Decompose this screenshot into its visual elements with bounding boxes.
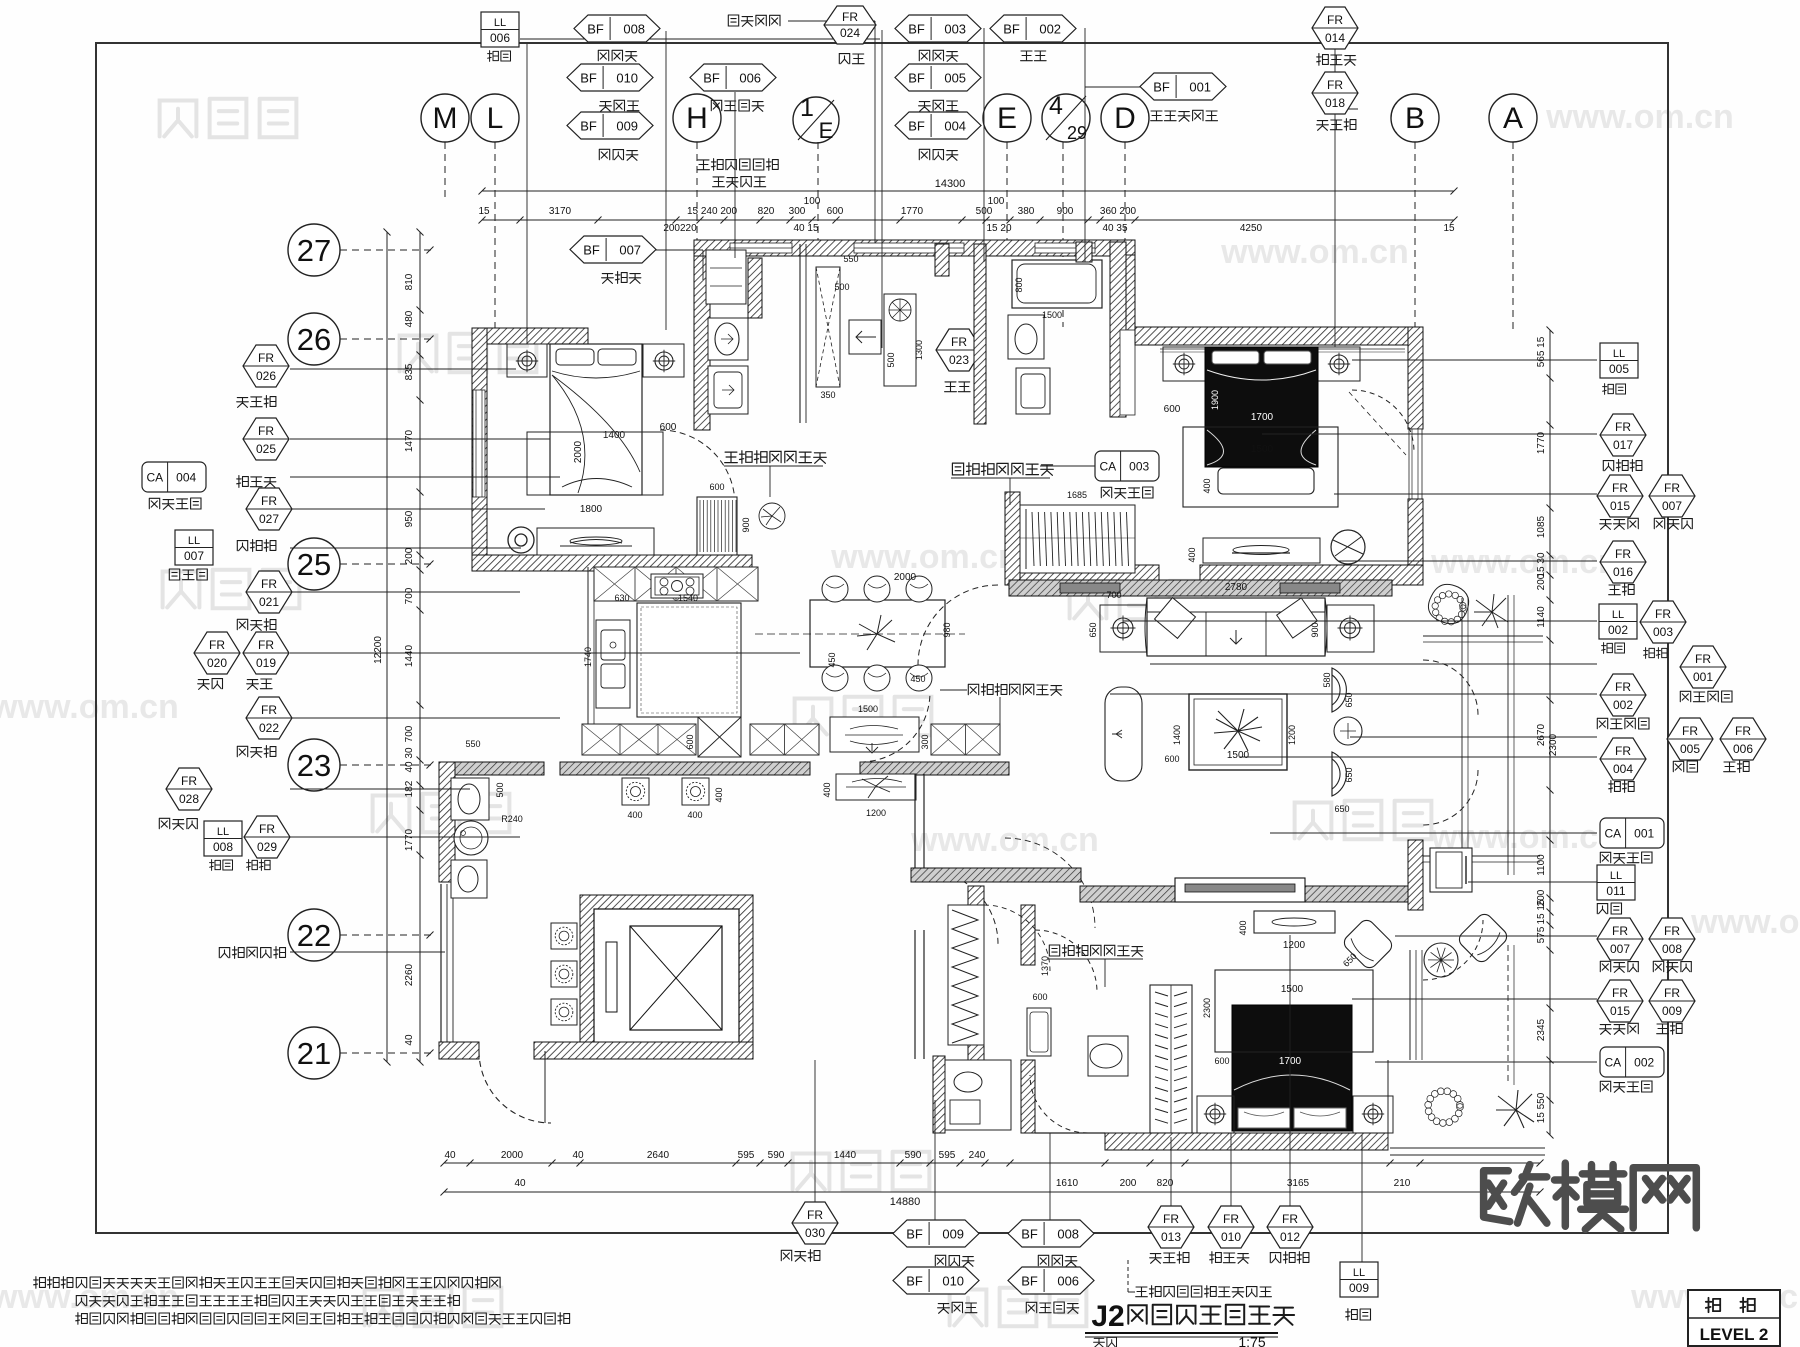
dimension line top overall xyxy=(482,190,1454,192)
svg-text:200: 200 xyxy=(1536,573,1547,590)
tag LL008 xyxy=(204,821,242,856)
svg-text:020: 020 xyxy=(207,656,227,670)
bedroom1 tv cabinet xyxy=(537,528,654,555)
svg-text:003: 003 xyxy=(1653,625,1673,639)
tag FR022 xyxy=(246,697,292,739)
svg-text:1770: 1770 xyxy=(901,206,924,217)
svg-text:FR: FR xyxy=(951,335,967,349)
svg-text:650: 650 xyxy=(1088,622,1098,637)
svg-text:008: 008 xyxy=(623,22,645,37)
svg-text:700: 700 xyxy=(404,587,415,604)
svg-text:BF: BF xyxy=(1021,1274,1038,1289)
label 单人沙发 xyxy=(1597,718,1649,729)
label 台灯r2 xyxy=(1602,643,1625,654)
bath1 vanity xyxy=(708,366,748,414)
hall console band xyxy=(1009,580,1392,596)
svg-text:019: 019 xyxy=(256,656,276,670)
svg-text:BF: BF xyxy=(908,119,925,134)
svg-text:BF: BF xyxy=(906,1227,923,1242)
tag CA002 xyxy=(1600,1047,1664,1077)
svg-text:www.om.cn: www.om.cn xyxy=(0,688,179,726)
svg-text:FR: FR xyxy=(807,1208,823,1222)
label 休闲椅b2 xyxy=(1653,961,1691,972)
svg-text:013: 013 xyxy=(1161,1230,1181,1244)
dining centerline xyxy=(755,633,965,635)
svg-text:200: 200 xyxy=(404,547,415,564)
dimension line right xyxy=(1549,330,1551,1135)
label 台灯l xyxy=(210,860,233,871)
svg-text:835: 835 xyxy=(404,363,415,380)
svg-text:1770: 1770 xyxy=(404,828,415,851)
console hall xyxy=(836,774,916,800)
svg-text:E: E xyxy=(819,118,834,143)
note 书柜做法见详图 xyxy=(725,451,827,464)
tag CA003 xyxy=(1095,451,1159,481)
bedroom2 top wall xyxy=(1135,327,1423,345)
svg-text:480: 480 xyxy=(404,310,415,327)
svg-text:15 20: 15 20 xyxy=(986,223,1011,234)
tag FR015a xyxy=(1597,475,1643,517)
label 圆几r xyxy=(1609,584,1634,596)
tag BF010 xyxy=(567,64,653,91)
pantry island xyxy=(884,294,916,386)
svg-text:FR: FR xyxy=(259,822,275,836)
svg-text:1500: 1500 xyxy=(1227,750,1250,761)
svg-text:595: 595 xyxy=(939,1150,956,1161)
tag CA004 xyxy=(142,462,206,492)
svg-text:FR: FR xyxy=(1612,481,1628,495)
svg-text:900: 900 xyxy=(1057,206,1074,217)
leader lines left tags xyxy=(290,368,516,370)
svg-text:R240: R240 xyxy=(501,814,523,824)
svg-text:600: 600 xyxy=(709,482,724,492)
bath2 stub wall xyxy=(935,244,949,276)
corner chair 2 xyxy=(1456,911,1510,965)
svg-text:010: 010 xyxy=(616,71,638,86)
bath1 toilet xyxy=(708,318,748,360)
svg-text:017: 017 xyxy=(1613,438,1633,452)
svg-text:016: 016 xyxy=(1613,565,1633,579)
label 休闲椅b1 xyxy=(1600,961,1638,972)
svg-text:700: 700 xyxy=(404,725,415,742)
tag FR016 xyxy=(1600,541,1646,583)
svg-text:005: 005 xyxy=(1609,362,1629,376)
svg-text:12200: 12200 xyxy=(373,636,384,664)
svg-text:2000: 2000 xyxy=(501,1150,524,1161)
svg-text:030: 030 xyxy=(805,1226,825,1240)
svg-text:023: 023 xyxy=(949,353,969,367)
svg-text:FR: FR xyxy=(1223,1212,1239,1226)
label 书桌 xyxy=(945,382,971,392)
svg-text:23: 23 xyxy=(297,748,331,783)
svg-text:www.om.cn: www.om.cn xyxy=(1690,903,1800,941)
tag FR009 xyxy=(1649,980,1695,1022)
tag LL011 xyxy=(1597,865,1635,900)
label 原建筑栏杆 xyxy=(219,947,285,959)
label 活动地毯m xyxy=(1101,487,1153,498)
svg-text:FR: FR xyxy=(1612,986,1628,1000)
master nightstand right xyxy=(1353,1096,1393,1133)
tag BF010b xyxy=(893,1267,979,1294)
tag FR025 xyxy=(243,418,289,460)
bedroom2 tv cabinet xyxy=(1203,538,1320,563)
label 茶几l xyxy=(247,860,271,871)
svg-text:1900: 1900 xyxy=(1210,390,1220,410)
level box xyxy=(1688,1290,1780,1346)
svg-text:LL: LL xyxy=(1612,609,1624,621)
tag LL009 xyxy=(1340,1262,1378,1297)
note 衣柜做法见详图2 xyxy=(1049,945,1143,957)
master door arcs xyxy=(1423,920,1483,980)
note 暖气片由专业公司深化 xyxy=(698,159,779,171)
svg-text:14300: 14300 xyxy=(935,178,966,190)
svg-text:40: 40 xyxy=(514,1178,526,1189)
tag LL006 xyxy=(481,12,519,47)
tag FR013 xyxy=(1148,1206,1194,1248)
svg-text:FR: FR xyxy=(1664,986,1680,1000)
tag LL005 xyxy=(1600,343,1638,378)
svg-text:BF: BF xyxy=(1153,80,1170,95)
svg-text:1440: 1440 xyxy=(834,1150,857,1161)
label 床头柜l xyxy=(237,396,276,408)
bath2 walls xyxy=(974,244,986,424)
label 装饰柜1 xyxy=(237,619,276,631)
svg-text:LL: LL xyxy=(1613,348,1625,360)
label 三人沙发 xyxy=(1680,691,1732,702)
svg-text:980: 980 xyxy=(942,622,952,637)
coffee table xyxy=(1189,694,1287,770)
hall rug plant xyxy=(862,776,890,798)
kitchen sink counter xyxy=(596,620,630,708)
label 落地灯 xyxy=(169,569,207,580)
master rug xyxy=(1215,970,1373,1052)
svg-text:J2: J2 xyxy=(1091,1300,1124,1333)
balcony plants xyxy=(1457,1104,1464,1111)
kitchen top counter xyxy=(594,567,758,601)
svg-text:600: 600 xyxy=(1214,1056,1229,1066)
tag LL007 xyxy=(175,530,213,565)
svg-text:300: 300 xyxy=(789,206,806,217)
plant by bookshelf xyxy=(759,503,785,529)
svg-text:1:75: 1:75 xyxy=(1238,1334,1265,1347)
svg-text:FR: FR xyxy=(1612,924,1628,938)
svg-text:CA: CA xyxy=(1099,460,1116,474)
svg-text:400: 400 xyxy=(687,810,702,820)
tag FR006 xyxy=(1720,718,1766,760)
bedroom1 nightstand left xyxy=(507,344,547,377)
tag FR019 xyxy=(243,632,289,674)
svg-text:1500: 1500 xyxy=(1281,984,1304,995)
tag FR007b xyxy=(1597,918,1643,960)
svg-text:024: 024 xyxy=(840,26,860,40)
hall cabinet crossed dashed xyxy=(816,267,840,387)
svg-text:400: 400 xyxy=(822,782,832,797)
svg-text:H: H xyxy=(686,102,708,135)
bathtub xyxy=(1012,260,1102,308)
svg-text:001: 001 xyxy=(1634,827,1654,841)
label 活动地毯r1 xyxy=(1600,852,1652,863)
svg-text:003: 003 xyxy=(1129,460,1149,474)
svg-text:FR: FR xyxy=(1735,724,1751,738)
suite inner wall xyxy=(1021,905,1035,965)
svg-text:021: 021 xyxy=(259,595,279,609)
dimension line left xyxy=(386,232,388,1062)
grid bubbles top xyxy=(421,94,469,142)
bedroom1 bottom wall xyxy=(472,555,752,571)
svg-text:1610: 1610 xyxy=(1056,1178,1079,1189)
svg-text:1140: 1140 xyxy=(1536,606,1547,628)
label 水龙头2 xyxy=(919,100,958,111)
svg-text:009: 009 xyxy=(1349,1281,1369,1295)
tag FR017 xyxy=(1600,414,1646,456)
note 暖气片 bottom xyxy=(1136,1286,1272,1298)
grid bubble 4/29 xyxy=(1042,94,1090,142)
svg-text:14880: 14880 xyxy=(890,1196,921,1208)
tag FR020 xyxy=(194,632,240,674)
powder toilet xyxy=(451,778,489,820)
label 角几 xyxy=(1644,648,1668,659)
svg-text:LL: LL xyxy=(1610,870,1622,882)
elevator shaft xyxy=(580,895,753,1058)
svg-text:004: 004 xyxy=(176,471,196,485)
svg-text:FR: FR xyxy=(1615,420,1631,434)
powder bidet xyxy=(451,860,487,898)
svg-text:A: A xyxy=(1503,102,1523,135)
bedroom2 armchair xyxy=(1331,530,1365,564)
label 浴缸 xyxy=(1021,51,1047,61)
lower cabinet decor xyxy=(830,717,919,752)
svg-text:FR: FR xyxy=(261,494,277,508)
label 餐椅 xyxy=(198,679,223,690)
kitchen island xyxy=(637,603,741,717)
svg-text:002: 002 xyxy=(1608,623,1628,637)
svg-text:26: 26 xyxy=(297,322,331,357)
svg-text:27: 27 xyxy=(297,233,331,268)
svg-text:2000: 2000 xyxy=(573,440,584,463)
label 圆几b xyxy=(1657,1023,1682,1035)
title scale xyxy=(1094,1337,1117,1347)
svg-text:FR: FR xyxy=(258,351,274,365)
label 休闲椅l xyxy=(159,818,197,829)
label 床尾凳r xyxy=(1600,518,1639,529)
svg-text:www.om.cn: www.om.cn xyxy=(910,821,1099,859)
label 餐桌 xyxy=(247,679,272,689)
bath3 walls xyxy=(1021,1060,1035,1133)
svg-text:100: 100 xyxy=(988,196,1005,207)
tag BF004 xyxy=(895,112,981,139)
label 圆几2 xyxy=(1724,761,1749,773)
leader lines bottom tags xyxy=(934,1100,936,1220)
tag BF009b xyxy=(893,1220,979,1247)
entry bottom wall xyxy=(534,1042,753,1059)
svg-text:012: 012 xyxy=(1280,1230,1300,1244)
svg-text:015: 015 xyxy=(1610,1004,1630,1018)
label 椅子 xyxy=(839,54,864,64)
stove xyxy=(651,574,703,598)
label 座包 xyxy=(1673,761,1697,772)
svg-text:40 35: 40 35 xyxy=(1102,223,1127,234)
svg-text:21: 21 xyxy=(297,1036,331,1071)
svg-text:005: 005 xyxy=(1680,742,1700,756)
tag BF008b xyxy=(1008,1220,1094,1247)
master bed black xyxy=(1232,1005,1352,1131)
label 壁灯 xyxy=(1597,903,1621,914)
entry door arc xyxy=(479,1051,551,1123)
svg-text:550: 550 xyxy=(465,739,480,749)
curtain zigzag closet xyxy=(948,905,984,1045)
svg-text:L: L xyxy=(487,102,504,135)
svg-text:2640: 2640 xyxy=(647,1150,670,1161)
svg-text:007: 007 xyxy=(1662,499,1682,513)
svg-text:810: 810 xyxy=(404,273,415,290)
svg-text:BF: BF xyxy=(580,71,597,86)
tag BF005 xyxy=(895,64,981,91)
tag BF008 xyxy=(574,15,660,42)
svg-text:FR: FR xyxy=(258,424,274,438)
dining chairs xyxy=(822,576,848,602)
tag FR004 xyxy=(1600,738,1646,780)
tag BF006b xyxy=(1008,1267,1094,1294)
svg-text:1400: 1400 xyxy=(1172,725,1182,745)
bath1 shelf xyxy=(706,250,746,304)
svg-text:25: 25 xyxy=(297,547,331,582)
svg-text:002: 002 xyxy=(1039,22,1061,37)
master bed pillows xyxy=(1238,1108,1290,1128)
label 水龙头 xyxy=(600,100,639,111)
svg-text:950: 950 xyxy=(404,510,415,527)
svg-text:40 15: 40 15 xyxy=(793,223,818,234)
svg-text:40: 40 xyxy=(404,1034,415,1046)
svg-text:002: 002 xyxy=(1613,698,1633,712)
svg-text:FR: FR xyxy=(1615,547,1631,561)
svg-text:40 30: 40 30 xyxy=(404,747,415,772)
svg-text:029: 029 xyxy=(257,840,277,854)
svg-text:LL: LL xyxy=(1353,1267,1365,1279)
svg-text:007: 007 xyxy=(619,243,641,258)
svg-text:004: 004 xyxy=(1613,762,1633,776)
svg-text:380: 380 xyxy=(1018,206,1035,217)
svg-text:www.om.cn: www.om.cn xyxy=(1545,98,1734,136)
tag FR003 xyxy=(1640,601,1686,643)
svg-text:400: 400 xyxy=(1238,920,1248,935)
sofa side table left xyxy=(1100,605,1147,652)
svg-text:600: 600 xyxy=(1032,992,1047,1002)
svg-text:CA: CA xyxy=(146,471,163,485)
tag FR024 xyxy=(824,6,876,44)
svg-text:008: 008 xyxy=(1057,1227,1079,1242)
svg-text:007: 007 xyxy=(1610,942,1630,956)
bath block top wall xyxy=(694,240,1135,256)
svg-text:360 200: 360 200 xyxy=(1100,206,1137,217)
svg-text:B: B xyxy=(1405,102,1425,135)
svg-text:CA: CA xyxy=(1604,827,1621,841)
bedroom1 door arc xyxy=(660,430,735,505)
armchair D1 xyxy=(1332,668,1346,712)
svg-text:FR: FR xyxy=(1664,924,1680,938)
svg-text:22: 22 xyxy=(297,918,331,953)
svg-text:40: 40 xyxy=(444,1150,456,1161)
bath2 vanity xyxy=(1016,368,1050,414)
tag BF002 xyxy=(990,15,1076,42)
svg-text:FR: FR xyxy=(1163,1212,1179,1226)
tag FR002 xyxy=(1600,674,1646,716)
label 台灯 xyxy=(488,51,511,62)
svg-text:800: 800 xyxy=(1014,277,1024,292)
bath1 wall detail xyxy=(748,258,762,318)
label 活动地毯l xyxy=(149,498,201,509)
svg-text:www.om.cn: www.om.cn xyxy=(1220,233,1409,271)
bath1 partition lines xyxy=(799,244,801,423)
master tv console xyxy=(1254,911,1335,933)
tag FR014 xyxy=(1312,7,1358,49)
svg-text:1500: 1500 xyxy=(1042,310,1062,320)
svg-text:1470: 1470 xyxy=(404,429,415,452)
svg-text:018: 018 xyxy=(1325,96,1345,110)
powder sink xyxy=(454,821,488,855)
svg-text:400: 400 xyxy=(1202,478,1212,493)
svg-text:590: 590 xyxy=(768,1150,785,1161)
svg-text:600: 600 xyxy=(1164,404,1181,415)
svg-text:007: 007 xyxy=(184,549,204,563)
bedroom2 right wall xyxy=(1408,327,1423,429)
label 装饰柜b xyxy=(781,1250,820,1262)
svg-text:027: 027 xyxy=(259,512,279,526)
svg-text:FR: FR xyxy=(1682,724,1698,738)
svg-text:004: 004 xyxy=(944,119,966,134)
tag FR027 xyxy=(246,488,292,530)
bedroom2 bench xyxy=(1218,468,1314,494)
drawing frame border xyxy=(96,43,1668,1233)
leader lines right tags xyxy=(1352,359,1597,361)
row bubbles left xyxy=(288,224,340,276)
wall tv device xyxy=(1430,848,1472,892)
balcony rails right xyxy=(1423,635,1543,637)
window right of bath xyxy=(1120,330,1135,415)
bedroom2 bottom wall xyxy=(1009,565,1159,585)
label 电视柜r xyxy=(1603,460,1642,472)
label 活动地毯r2 xyxy=(1600,1081,1652,1092)
svg-text:BF: BF xyxy=(908,71,925,86)
master top wall xyxy=(1080,886,1410,902)
sofa pillows xyxy=(1155,598,1196,639)
elevator car xyxy=(630,926,722,1030)
svg-text:CA: CA xyxy=(1604,1056,1621,1070)
svg-text:450: 450 xyxy=(827,652,837,667)
svg-text:1500: 1500 xyxy=(858,704,878,714)
svg-text:FR: FR xyxy=(261,703,277,717)
svg-text:009: 009 xyxy=(942,1227,964,1242)
closet top-right bedroom xyxy=(1005,492,1020,585)
tag CA001 xyxy=(1600,818,1664,848)
svg-text:009: 009 xyxy=(1662,1004,1682,1018)
dimension line bottom detail xyxy=(444,1162,1540,1164)
svg-text:240: 240 xyxy=(969,1150,986,1161)
svg-text:15 15: 15 15 xyxy=(1536,899,1547,924)
label 双人床b xyxy=(1210,1252,1249,1264)
svg-text:580: 580 xyxy=(1322,672,1332,687)
flower boxes xyxy=(551,923,577,949)
bedroom2 nightstand right xyxy=(1318,347,1360,381)
label 电视柜l xyxy=(237,540,276,552)
svg-text:003: 003 xyxy=(944,22,966,37)
tag FR028 xyxy=(166,768,212,810)
tag BF001 xyxy=(1140,73,1226,100)
dimension line bottom overall xyxy=(444,1191,1540,1193)
svg-text:BF: BF xyxy=(1003,22,1020,37)
notes bottom left xyxy=(34,1277,73,1289)
svg-text:022: 022 xyxy=(259,721,279,735)
svg-text:630: 630 xyxy=(614,593,629,603)
